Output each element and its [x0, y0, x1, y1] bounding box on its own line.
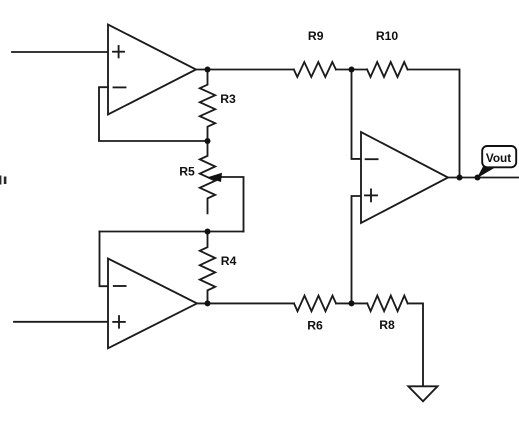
- Vout callout: [477, 146, 516, 178]
- wire R9 junction to U3 minus: [352, 70, 362, 159]
- op-amp U1: [108, 25, 196, 115]
- node R4 top: [205, 229, 211, 235]
- resistor R8: [367, 296, 408, 312]
- resistor R5 (potentiometer body): [200, 141, 215, 213]
- wire R8 to ground: [408, 303, 423, 386]
- wire U2 output to R6: [197, 302, 294, 304]
- op-amp U2: [108, 259, 197, 349]
- wire R9 R10 junction: [336, 69, 367, 71]
- svg-text:R5: R5: [179, 164, 195, 178]
- svg-text:R8: R8: [379, 318, 395, 332]
- wiper arrow of R5: [207, 173, 222, 182]
- wire U3 output Vout: [448, 177, 519, 179]
- node Vout tap: [475, 175, 481, 181]
- svg-text:R4: R4: [221, 254, 237, 268]
- svg-text:R9: R9: [308, 29, 324, 43]
- resistor R4: [200, 232, 215, 304]
- left edge artifact mark: [0, 176, 6, 185]
- wire R10 to U3 output: [408, 70, 460, 178]
- wire U1 output to R9: [196, 69, 294, 71]
- wire R6 R8 junction: [336, 302, 367, 304]
- node R9 R10: [349, 67, 355, 73]
- svg-text:R3: R3: [220, 92, 236, 106]
- wire R6 junction to U3 plus: [352, 196, 362, 303]
- wire R5 wiper to R4 node: [219, 177, 244, 232]
- svg-text:Vout: Vout: [486, 151, 511, 165]
- wire input to U1 +: [12, 51, 108, 53]
- wire input to U2 +: [14, 321, 108, 323]
- wire U1 feedback (minus input to R3 bottom node): [99, 87, 208, 141]
- op-amp U3: [361, 132, 448, 223]
- resistor R10: [367, 62, 408, 77]
- wire U2 feedback vertical: [100, 232, 109, 287]
- node R3 bottom: [205, 138, 211, 144]
- svg-text:R6: R6: [307, 318, 323, 332]
- ground: [408, 386, 437, 401]
- resistor R9: [294, 62, 336, 77]
- wire bottom gain net (R5 bottom / U2 feedback horizontal): [100, 231, 244, 233]
- resistor R3: [200, 70, 215, 142]
- resistor R6: [294, 296, 336, 312]
- node U1 output: [205, 67, 211, 73]
- node U2 output: [205, 300, 211, 306]
- node U3 output: [457, 175, 463, 181]
- svg-text:R10: R10: [376, 29, 399, 43]
- node R6 R8: [349, 300, 355, 306]
